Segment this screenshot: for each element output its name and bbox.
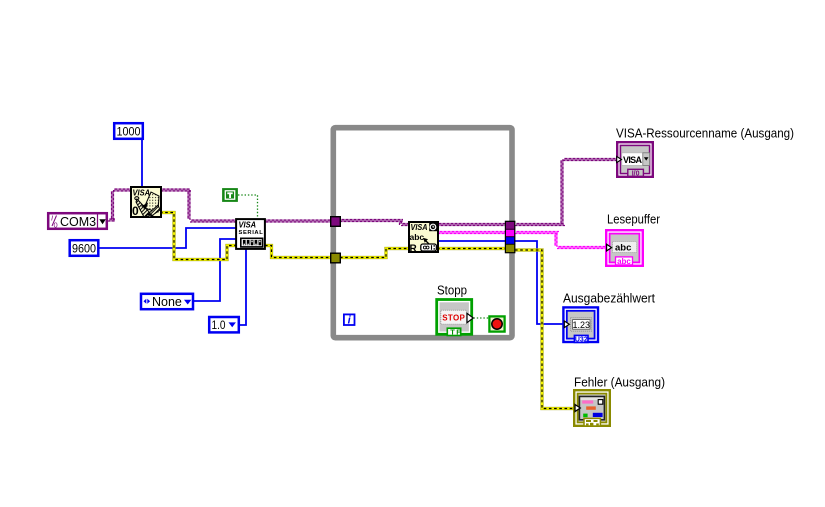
VISA Read icon U3 [409,222,438,254]
wire: riser up from COM3 [112,190,114,220]
numeric constant 1000 (timeout) [114,123,143,139]
svg-text:Fehler (Ausgang): Fehler (Ausgang) [574,375,665,390]
svg-text:I/0: I/0 [632,170,640,177]
svg-text:VISA: VISA [411,222,428,232]
svg-text:STOP: STOP [442,314,465,323]
svg-text:Stopp: Stopp [437,283,467,298]
enum constant None (flow control) [141,294,193,309]
boolean constant TRUE (T) [223,189,238,202]
wire: 1000 timeout down to VISA-configure [141,140,143,187]
wire: to while-loop left tunnel (behind VISA SERIAL) [190,220,331,222]
svg-text:0: 0 [132,204,139,218]
svg-text:T: T [450,327,455,336]
wire: Stopp button to loop condition [474,317,490,319]
wire: 9600 baud rate to VISA SERIAL [99,228,236,248]
svg-text:0: 0 [54,221,58,230]
indicator Lesepuffer (string) [606,230,643,266]
wire: out of loop right [515,224,565,226]
iteration terminal i [344,314,355,326]
wire: string drop [555,233,557,247]
wire: 1.0 stop bits up to VISA SERIAL [240,249,246,325]
I/O constant COM3 [48,213,107,229]
wire: VISA-configure error out to VISA SERIAL (error cluster) [160,213,237,260]
svg-text:1000: 1000 [117,124,141,138]
svg-text:VISA: VISA [133,188,151,198]
wire: riser to VISA indicator [561,159,563,225]
tunnel: read string out [506,230,514,237]
indicator Ausgabezaehlwert (U32) [563,307,598,343]
wire: string into Lesepuffer [557,247,606,249]
wire: byte count out of VISA Read [430,240,506,242]
indicator Fehler (Ausgang) error cluster [574,390,610,426]
svg-text:F: F [456,327,461,336]
svg-text:Ausgabezählwert: Ausgabezählwert [563,291,655,306]
wire: into VISA-configure icon (behind icon) [113,189,191,191]
svg-text:abc: abc [617,257,631,266]
wire: into VISA-Ressourcenname indicator [563,159,617,161]
numeric constant 9600 (baud) [70,240,99,256]
VISA Configure Serial Port (SERIAL) icon U2 [236,219,265,249]
svg-text:U32: U32 [575,337,588,344]
wire: drop to serial-config level [188,190,190,220]
svg-text:VISA: VISA [239,220,257,230]
VISA Configure Serial Port icon U1 [131,187,161,218]
indicator VISA-Ressourcenname (Ausgang) [617,142,653,177]
while loop structure border [333,128,512,338]
svg-text:VISA: VISA [623,155,643,165]
svg-text:None: None [152,295,182,309]
wire: count out of loop to Ausgabezaehlwert [515,241,563,324]
svg-text:SERIAL: SERIAL [239,230,264,236]
wire: jog down before VISA Read [400,221,402,225]
tunnel: VISA resource out [506,222,514,229]
tunnel stack frame (loop right) [505,221,516,254]
svg-text:VISA-Ressourcenname (Ausgang): VISA-Ressourcenname (Ausgang) [616,126,794,141]
wire: error out of loop to Fehler indicator (error cluster) [515,250,575,409]
svg-text:1.0: 1.0 [212,318,226,332]
tunnel: error in (loop left) [331,253,341,263]
wire: VISA Read string out to tunnel [430,232,506,234]
wire: VISA SERIAL error to loop tunnel (error cluster) [265,246,331,258]
svg-text:abc: abc [410,232,425,242]
svg-text:R: R [410,243,418,254]
svg-text:Lesepuffer: Lesepuffer [607,212,661,227]
svg-text:1.23: 1.23 [573,320,591,330]
wire: error inside loop to VISA Read (error cluster) [340,249,409,258]
wire: COM3 to riser [108,219,115,221]
tunnel: VISA resource (loop left) [331,217,341,227]
tunnel: error out [506,245,514,252]
numeric constant 1.0 (stop bits) [209,317,239,332]
loop condition terminal (stop sign) [489,316,504,331]
wire: VISA Read error out to right tunnel (error cluster) [437,247,506,250]
wire: inside loop from tunnel [340,220,403,222]
wire: None flow control to VISA SERIAL [194,239,236,301]
stop button terminal [437,300,474,337]
wire: through VISA Read to right tunnel [401,224,506,226]
tunnel: byte count out [506,237,514,244]
svg-text:9600: 9600 [72,241,96,255]
wire: TRUE constant to VISA SERIAL [238,195,258,218]
wire: string out of loop [515,232,559,234]
svg-text:COM3: COM3 [60,215,96,229]
svg-text:abc: abc [615,243,631,254]
